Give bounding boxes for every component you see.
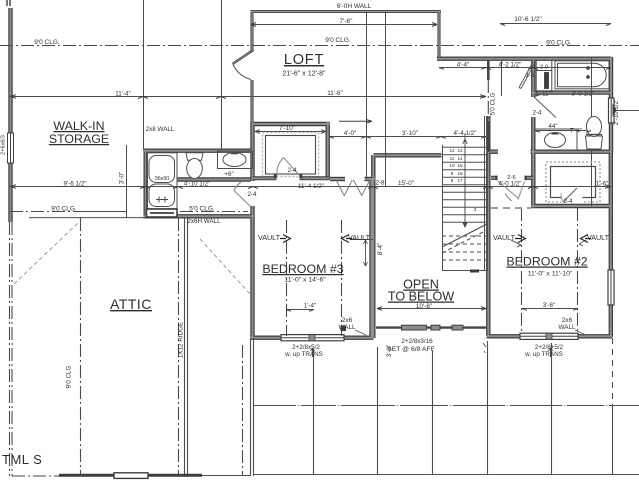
walk-in closet (bedroom2) hatched walls (546, 162, 600, 203)
dim line 7-10 (255, 131, 326, 133)
wall bath hall / linen west (531, 60, 535, 97)
hall 5-0 clg dashed wall (487, 80, 489, 121)
wall storage-bath west (143, 150, 147, 215)
wall bedroom2 south (487, 334, 613, 338)
roof vertical x377 (377, 347, 379, 475)
wall bedroom3 south (251, 336, 374, 340)
shelf below shower (147, 209, 178, 217)
wall under tub (531, 90, 610, 94)
vault line bedroom2 left (521, 208, 523, 334)
svg-text:VAULT: VAULT (587, 233, 610, 242)
wall bedroom2 east (609, 152, 613, 337)
svg-text:2x6H WALL: 2x6H WALL (187, 218, 221, 225)
svg-text:9: 9 (451, 171, 454, 176)
svg-text:17: 17 (457, 178, 463, 183)
wall bifold closet south-right stub (365, 177, 376, 181)
svg-text:11'-0" x 11'-10": 11'-0" x 11'-10" (528, 271, 573, 278)
svg-text:9'-6 1/2": 9'-6 1/2" (63, 181, 86, 188)
svg-text:21'-6" x 12'-8": 21'-6" x 12'-8" (282, 71, 326, 78)
svg-text:5'0 CLG.: 5'0 CLG. (189, 206, 215, 213)
svg-text:6'-0H WALL: 6'-0H WALL (337, 3, 372, 10)
vault line bedroom3 left (286, 220, 288, 336)
svg-text:11'-4": 11'-4" (115, 91, 131, 98)
bedroom3 dim y309 (286, 309, 314, 311)
swing marks bedroom2 (511, 240, 586, 247)
svg-text:5'0 CLG: 5'0 CLG (490, 92, 497, 115)
wall bedroom2 west / stair rail wall (486, 116, 490, 336)
svg-text:3: 3 (474, 207, 477, 212)
svg-text:VAULT: VAULT (258, 233, 281, 242)
vertical line x385 hall (385, 13, 387, 186)
small dim bedroom3 east (365, 240, 367, 266)
door bedroom2 hall (2-6) V swing (498, 181, 525, 202)
wall loft left upper (250, 11, 253, 52)
attic bottom thick (59, 474, 202, 477)
svg-text:BEDROOM #3: BEDROOM #3 (262, 262, 343, 276)
newel post (341, 326, 347, 332)
svg-text:3'-0": 3'-0" (386, 345, 393, 358)
svg-text:2+2/8x5/2: 2+2/8x5/2 (292, 344, 320, 351)
wall hall/bath top (437, 57, 612, 61)
wall loft top (251, 10, 442, 13)
wall closet2 south / bedroom2 north (532, 204, 612, 208)
roof vertical x487 (487, 341, 489, 475)
shower (storage bath) (147, 153, 178, 209)
stair left line (442, 145, 444, 271)
svg-text:2+6x6/3: 2+6x6/3 (1, 135, 7, 155)
svg-text:VAULT: VAULT (348, 233, 371, 242)
svg-text:+6": +6" (224, 171, 233, 178)
svg-text:7'-4": 7'-4" (570, 128, 583, 135)
svg-text:STORAGE: STORAGE (49, 132, 109, 146)
roof vertical x612 lower (612, 406, 614, 475)
sink vanity (storage bath) (218, 151, 253, 169)
wall bath2 south (531, 149, 612, 153)
svg-text:2'-10 1/2": 2'-10 1/2" (613, 99, 620, 126)
svg-text:2x6: 2x6 (562, 317, 573, 324)
landing line y96 to stair (439, 96, 486, 98)
svg-text:SET @ 6/8 AFF: SET @ 6/8 AFF (387, 346, 435, 353)
wall open-to-below west (371, 155, 375, 338)
svg-text:3'-10": 3'-10" (402, 130, 418, 137)
top-left wall tick (7, 0, 10, 6)
svg-text:11'-6": 11'-6" (327, 90, 343, 97)
svg-text:3'-0 1/2": 3'-0 1/2" (571, 91, 594, 98)
svg-text:11'-4 1/2": 11'-4 1/2" (298, 183, 324, 190)
wall loft top-right step down (437, 12, 440, 58)
roof vertical x432 (432, 350, 434, 475)
wall stubs at bedroom2 hall door (491, 176, 533, 180)
svg-text:9'0 CLG.: 9'0 CLG. (34, 39, 60, 46)
svg-text:2+2/8x3/16: 2+2/8x3/16 (401, 338, 433, 345)
dimension line y67.5 (hall widths) (439, 67, 611, 69)
dimension string y186.5 full width (10, 186, 611, 188)
svg-text:14: 14 (457, 156, 463, 161)
window label up-arrow bedroom3 (311, 348, 315, 357)
right edge dim y110 (613, 110, 639, 112)
wall right outer upper (609, 57, 613, 153)
wall loft closet north (253, 122, 330, 126)
svg-text:9'0 CLG: 9'0 CLG (66, 365, 73, 388)
wall loft closet / storage common (west) (250, 122, 254, 181)
svg-text:2-8: 2-8 (375, 180, 385, 187)
svg-text:36x60: 36x60 (155, 176, 169, 182)
svg-text:2-4: 2-4 (563, 198, 573, 205)
svg-text:TO BELOW: TO BELOW (388, 290, 454, 304)
svg-text:2x8 WALL: 2x8 WALL (146, 126, 175, 133)
bottom thin 202-254 (202, 475, 250, 477)
bifold doors (336, 180, 370, 196)
svg-text:8'-4": 8'-4" (377, 243, 384, 256)
door hall-bath (1-6) (519, 62, 535, 89)
dimension string y96 (10, 96, 486, 98)
dimension line top right (10'-6) (500, 23, 611, 25)
roof dashdot x242 (242, 345, 244, 475)
stair treads lower dashed (442, 236, 487, 260)
svg-text:4'-4 1/2": 4'-4 1/2" (453, 130, 476, 137)
window label up-arrow bedroom2 (549, 348, 553, 357)
dimension line x127 storage (126, 145, 128, 218)
svg-text:2+2/8+5/2: 2+2/8+5/2 (535, 344, 564, 351)
svg-text:WALK-IN: WALK-IN (53, 119, 104, 133)
svg-text:11: 11 (450, 156, 455, 161)
wall landing south (left piece) (487, 149, 499, 153)
vanity counter line bath2 (535, 129, 577, 151)
svg-text:w. up TRANS: w. up TRANS (524, 351, 563, 358)
loft closet shelving + interior (263, 133, 319, 177)
stair treads upper (442, 147, 487, 222)
svg-text:2-4: 2-4 (532, 110, 542, 117)
svg-text:9'0 CLG.: 9'0 CLG. (51, 206, 77, 213)
window bedroom2 south (520, 333, 578, 339)
window left wall storage (8, 133, 14, 163)
window bath east (609, 98, 615, 123)
toilet (storage bath) (186, 153, 203, 179)
door loft entry (west) (232, 50, 253, 80)
wall left outer (storage) (8, 8, 12, 222)
attic bottom dashdot left (12, 475, 59, 477)
wall storage-bath north (144, 148, 254, 152)
svg-text:10'-6 1/2": 10'-6 1/2" (514, 16, 542, 23)
wall bedroom3 west (250, 218, 254, 339)
svg-text:1X12 RIDGE: 1X12 RIDGE (178, 322, 185, 358)
svg-text:9'0 CLG.: 9'0 CLG. (546, 40, 572, 47)
roof horizontal y406 (254, 405, 639, 407)
clg line storage y212 (10, 211, 79, 213)
svg-text:2-4: 2-4 (247, 191, 257, 198)
bedroom2 dim y308 (522, 308, 578, 310)
vertical line x501 hall dim (501, 60, 503, 96)
svg-text:ATTIC: ATTIC (110, 297, 152, 312)
svg-text:15'-0": 15'-0" (398, 180, 414, 187)
linen closet (hall bath) (536, 60, 552, 93)
svg-text:16: 16 (457, 171, 463, 176)
vault line bedroom3 right (341, 220, 343, 336)
svg-text:3'-0": 3'-0" (119, 172, 126, 185)
leader marks bedroom2 sw corner (483, 343, 486, 353)
opening dashes below (bedroom2 top) (491, 207, 531, 209)
stair right rail double (484, 116, 486, 271)
svg-text:7'-6": 7'-6" (340, 18, 354, 25)
tub (hall bath) (555, 61, 609, 89)
stair break line (442, 224, 487, 247)
dimension line top (7'-6) (251, 24, 437, 26)
stair bottom tick (470, 270, 479, 273)
vertical line x366 closet/hall (366, 13, 368, 179)
wall loft closet east (326, 122, 330, 180)
door storage-bath (into bath) (234, 182, 251, 207)
roof vertical x612 dashed upper (612, 338, 614, 406)
svg-text:10: 10 (449, 163, 455, 168)
svg-text:VAULT: VAULT (493, 233, 516, 242)
medium walls (loft perimeter) (251, 11, 442, 122)
attic east wall double (184, 218, 186, 477)
svg-text:WALL: WALL (559, 324, 576, 331)
svg-text:8: 8 (451, 178, 454, 183)
svg-text:1'-6": 1'-6" (596, 181, 609, 188)
thin line y212 storage (clg) (79, 211, 127, 213)
svg-text:BEDROOM #2: BEDROOM #2 (506, 255, 587, 269)
door bath2 (2-4) (534, 95, 556, 118)
svg-text:1-6: 1-6 (525, 72, 535, 79)
svg-text:4'-10 1/2": 4'-10 1/2" (184, 181, 211, 188)
svg-text:2-6: 2-6 (507, 175, 516, 181)
vertical dim line x591 through bath (591, 57, 593, 206)
attic west wall dashed below (9, 222, 11, 476)
attic ridge dashdot x179 (178, 218, 180, 477)
attic north thin line (29, 217, 144, 219)
svg-text:4'-0 1/2": 4'-0 1/2" (498, 181, 521, 188)
sink (bath2) (545, 133, 566, 148)
svg-text:44": 44" (548, 123, 557, 130)
svg-text:w. up TRANS: w. up TRANS (284, 351, 323, 358)
svg-text:1'-11": 1'-11" (535, 91, 551, 98)
window bedroom3 south (281, 335, 344, 341)
svg-text:4'-4": 4'-4" (457, 62, 470, 69)
svg-text:10'-6": 10'-6" (416, 303, 433, 310)
svg-text:9'0 CLG.: 9'0 CLG. (325, 37, 351, 44)
svg-text:1'-4": 1'-4" (304, 303, 317, 310)
svg-text:15: 15 (457, 163, 463, 168)
attic diagonal dashed upper-left (14, 221, 80, 284)
wall bedroom3 east (369, 179, 373, 339)
hall clg wall solid parts (487, 60, 490, 152)
dimension line y136 (closet/stairs) (329, 136, 486, 138)
stair direction line with arrow (464, 133, 466, 226)
svg-text:11'-0" x 14'-6": 11'-0" x 14'-6" (284, 277, 326, 284)
wall toilet nook south (178, 177, 251, 181)
svg-text:LOFT: LOFT (284, 52, 324, 68)
svg-text:13: 13 (457, 148, 463, 153)
wall bath-bedroom3 stub below door (250, 206, 254, 218)
attic ridge dashdot x80 (80, 218, 82, 476)
roof bottom y475 right part (254, 474, 639, 476)
svg-text:2-4: 2-4 (287, 167, 297, 174)
bath2 dim line y130 (535, 130, 592, 132)
diagonal dashed storage to bedroom3 (200, 239, 251, 295)
svg-text:TML S: TML S (2, 452, 42, 467)
wall bath2 west (531, 117, 535, 208)
vertical dim line x221 (221, 0, 223, 150)
closet bottom wall pieces (253, 176, 329, 180)
clg line y45 full width (0, 45, 639, 47)
bedroom3 west wall continues down (250, 338, 252, 476)
svg-text:2-0: 2-0 (540, 65, 548, 71)
roof vertical x314 (313, 349, 315, 475)
door loft closet (277, 158, 300, 177)
svg-text:3'-6": 3'-6" (543, 302, 556, 309)
svg-text:4'-2 1/2": 4'-2 1/2" (498, 62, 521, 69)
wall bifold closet south-left stub (330, 177, 345, 181)
svg-text:7'-10": 7'-10" (279, 125, 295, 132)
wall cores (light) (11, 8, 613, 339)
wall stair-hall north (374, 153, 442, 157)
wall attic north (2x6H) (144, 214, 255, 218)
window bedroom2 east (608, 270, 614, 305)
open-to-below dim y308 (377, 308, 486, 310)
stair bottom (442, 270, 487, 272)
svg-text:WALL: WALL (339, 324, 356, 331)
attic bottom vent (114, 473, 148, 479)
svg-text:2x6: 2x6 (342, 317, 353, 324)
roof vertical x551 (551, 343, 553, 475)
svg-text:12: 12 (449, 148, 455, 153)
svg-text:4'-0": 4'-0" (344, 130, 357, 137)
roof line y406 dash gaps (296, 405, 609, 407)
vertical dim line x143 (143, 0, 145, 150)
stair riser numbers (449, 148, 476, 212)
toilet (bath2) (586, 117, 603, 150)
closet door posts (274, 174, 277, 179)
vault line bedroom2 right (577, 208, 579, 334)
wall loft left lower (250, 80, 253, 122)
bifold closet top line (331, 136, 366, 138)
